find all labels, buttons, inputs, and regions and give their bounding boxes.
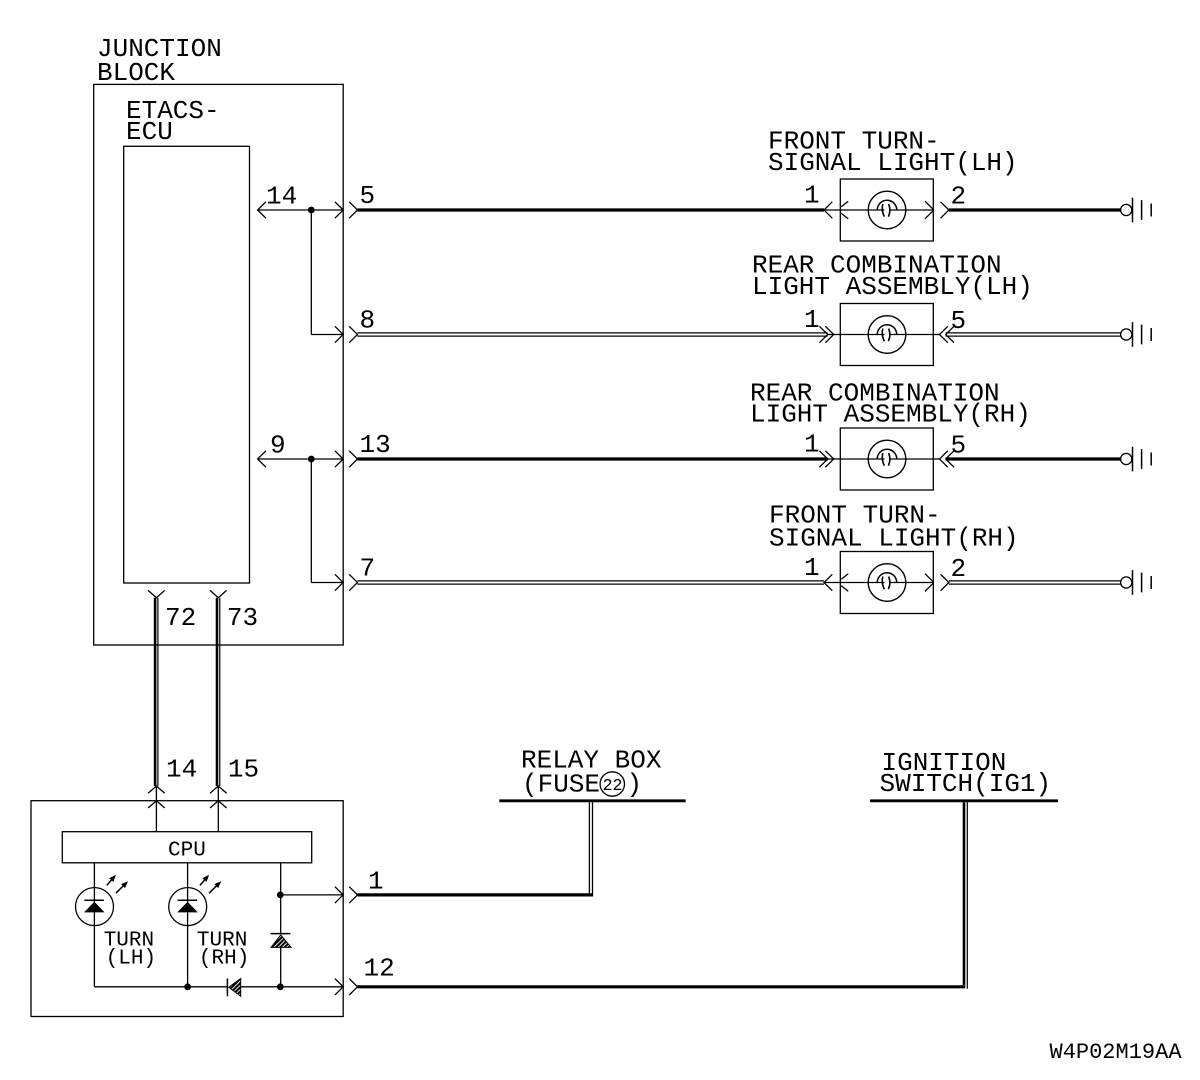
wire 73 to ETACS-ECU bottom unit (double) <box>216 598 219 786</box>
svg-text:(FUSE: (FUSE <box>522 770 600 800</box>
svg-text:7: 7 <box>360 554 376 584</box>
svg-text:5: 5 <box>951 306 967 336</box>
svg-text:2: 2 <box>951 182 967 212</box>
svg-text:SIGNAL LIGHT(RH): SIGNAL LIGHT(RH) <box>769 524 1019 554</box>
wire stub into lamp box <box>824 582 840 584</box>
ground body ground row 3 <box>1121 453 1132 464</box>
bulb rear combination light LH <box>868 316 906 354</box>
lamp box front turn-signal light RH <box>840 552 933 614</box>
svg-text:SIGNAL LIGHT(LH): SIGNAL LIGHT(LH) <box>768 148 1018 178</box>
wire through lamp box <box>840 582 884 584</box>
wire 7 to front turn-signal light RH <box>358 580 825 582</box>
svg-text:14: 14 <box>166 755 197 785</box>
connector arrows output 1 <box>335 887 343 903</box>
pin 14 arrow into ETACS-ECU <box>258 202 266 218</box>
wire pin 14 to CPU <box>155 786 157 832</box>
svg-text:5: 5 <box>951 431 967 461</box>
connector arrows pin 5 right side <box>940 326 948 342</box>
svg-text:8: 8 <box>360 306 376 336</box>
wire 5 to front turn-signal light LH <box>358 208 825 211</box>
wire front turn-signal light RH to ground <box>949 580 1121 582</box>
svg-text:13: 13 <box>360 430 391 460</box>
wire stub into lamp box <box>824 209 840 211</box>
node dot rail LED RH <box>184 983 191 990</box>
ground body ground row 1 <box>1121 204 1132 215</box>
wire relay box down (double) <box>588 802 590 893</box>
wire ignition switch down <box>963 802 966 985</box>
connector arrows wire 7 at junction block edge <box>335 574 343 590</box>
connector arrow at wire end (pin 1) <box>824 202 832 218</box>
svg-text:12: 12 <box>364 954 395 984</box>
junction block box <box>94 84 344 645</box>
svg-text:73: 73 <box>227 603 258 633</box>
wire to output 1 <box>280 894 343 896</box>
wire 13 to rear combination light RH <box>358 457 828 460</box>
node dot output 1 <box>277 892 284 899</box>
lamp box rear combination light LH <box>840 304 933 366</box>
svg-text:2: 2 <box>951 554 967 584</box>
connector ticks at lamp box edges <box>841 201 848 207</box>
wire stub into lamp box <box>828 458 841 460</box>
svg-text:CPU: CPU <box>168 840 206 863</box>
wire 1 to relay box <box>358 893 594 896</box>
bulb rear combination light RH <box>868 440 906 478</box>
bulb front turn-signal light RH <box>868 564 906 602</box>
svg-text:LIGHT ASSEMBLY(RH): LIGHT ASSEMBLY(RH) <box>750 400 1031 430</box>
wire CPU to turn RH indicator <box>187 863 189 987</box>
wire front turn-signal light LH to ground <box>949 208 1121 211</box>
wire CPU to turn LH indicator <box>93 863 95 987</box>
pin 14 connector arrows entering ECU unit <box>148 786 165 793</box>
svg-text:9: 9 <box>270 431 286 461</box>
svg-text:1: 1 <box>804 553 820 583</box>
connector arrows pin 5 right side <box>940 451 948 467</box>
connector arrows at lamp (pin 1) <box>819 451 827 467</box>
svg-text:(LH): (LH) <box>106 948 156 971</box>
wire through lamp box <box>840 458 884 460</box>
LED turn indicator (RH) <box>169 888 207 926</box>
pin 9 arrow into ETACS-ECU <box>258 451 266 467</box>
svg-text:SWITCH(IG1): SWITCH(IG1) <box>880 769 1052 799</box>
connector ticks at lamp box edges <box>841 574 848 580</box>
svg-text:1: 1 <box>804 305 820 335</box>
wire branch to junction block edge row 2 <box>311 334 343 336</box>
relay box bar <box>499 799 685 802</box>
wire rear combination light RH to ground <box>946 457 1121 460</box>
wire rear combination light LH to ground <box>946 332 1121 334</box>
lamp box rear combination light RH <box>840 428 933 490</box>
wire branch down <box>310 210 312 335</box>
svg-text:1: 1 <box>804 180 820 210</box>
pin 15 connector arrows entering ECU unit <box>210 786 227 793</box>
connector arrows wire 5 at junction block edge <box>335 202 343 218</box>
wire pin 9 to junction node <box>258 458 344 460</box>
svg-text:14: 14 <box>266 182 297 212</box>
LED emission arrows (LH) <box>107 877 114 885</box>
ETACS-ECU bottom unit box <box>31 801 343 1017</box>
svg-text:1: 1 <box>368 867 384 897</box>
ground body ground row 2 <box>1121 329 1132 340</box>
svg-text:15: 15 <box>228 755 259 785</box>
svg-text:LIGHT ASSEMBLY(LH): LIGHT ASSEMBLY(LH) <box>752 272 1033 302</box>
connector arrows at lamp (pin 1) <box>819 326 827 342</box>
LED emission arrows (RH) <box>200 877 207 885</box>
diode on rail <box>226 979 228 997</box>
LED turn indicator (LH) <box>76 888 114 926</box>
svg-text:22: 22 <box>603 776 623 795</box>
wire stub out of lamp box <box>933 458 939 460</box>
wire stub into lamp box <box>828 334 841 336</box>
wire internal ground rail <box>94 986 227 988</box>
ETACS-ECU box <box>124 146 250 583</box>
svg-text:BLOCK: BLOCK <box>97 58 175 88</box>
wire branch to junction block edge row 4 <box>311 582 343 584</box>
connector arrow at wire end (pin 1) <box>824 574 832 590</box>
bulb front turn-signal light LH <box>868 191 906 229</box>
wire stub out of lamp box <box>933 334 939 336</box>
wire pin 14 to junction node <box>258 209 344 211</box>
node dot rail zener <box>277 983 284 990</box>
svg-text:1: 1 <box>804 429 820 459</box>
CPU block <box>62 832 311 863</box>
wire zener to ground rail <box>280 947 282 986</box>
ignition switch bar <box>870 799 1058 802</box>
zener diode <box>270 933 290 935</box>
wire branch down <box>310 459 312 583</box>
svg-text:5: 5 <box>360 181 376 211</box>
wire through lamp box <box>840 334 884 336</box>
wire 72 to ETACS-ECU bottom unit (double) <box>154 598 157 786</box>
connector arrows wire 8 at junction block edge <box>335 326 343 342</box>
connector arrows wire 13 at junction block edge <box>335 451 343 467</box>
ground body ground row 4 <box>1121 577 1132 588</box>
node junction dot row 1 <box>308 207 315 214</box>
node junction dot row 3 <box>308 456 315 463</box>
svg-text:(RH): (RH) <box>199 948 249 971</box>
wire pin 15 to CPU <box>217 786 219 832</box>
svg-text:): ) <box>627 770 643 800</box>
pin 72 connector arrow at ETACS-ECU bottom <box>148 590 165 597</box>
connector arrow pin 2 right side <box>941 574 949 590</box>
svg-text:72: 72 <box>165 603 196 633</box>
wire 8 to rear combination light LH <box>358 332 828 334</box>
lamp box front turn-signal light LH <box>840 179 933 241</box>
wire through lamp box <box>840 209 884 211</box>
svg-text:ECU: ECU <box>126 117 173 147</box>
wire CPU to zener branch <box>280 863 282 934</box>
wire 12 to ignition switch <box>358 985 966 988</box>
connector arrow pin 2 right side <box>941 202 949 218</box>
svg-text:W4P02M19AA: W4P02M19AA <box>1050 1040 1183 1065</box>
pin 73 connector arrow at ETACS-ECU bottom <box>210 590 227 597</box>
connector arrows output 12 <box>335 979 343 995</box>
